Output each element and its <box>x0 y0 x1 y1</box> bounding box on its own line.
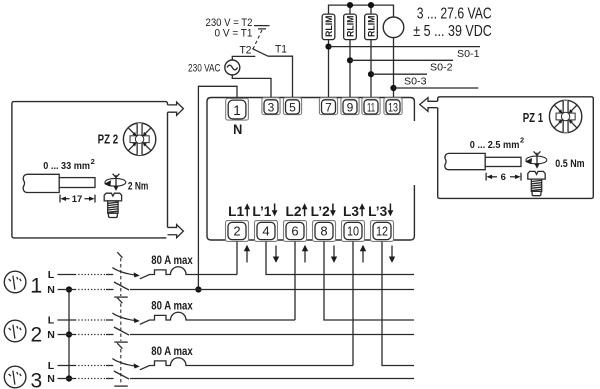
link bar selector <box>254 26 270 29</box>
svg-text:0 ... 2.5 mm: 0 ... 2.5 mm <box>470 140 520 151</box>
switch lever T2/T1 <box>252 49 268 57</box>
junction S0-3 <box>368 71 374 77</box>
breaker 80A row1 <box>140 267 237 279</box>
wire riser terminal 6 <box>294 241 296 320</box>
junction bus <box>347 2 353 8</box>
wire T2 contact <box>232 56 255 60</box>
wire N row2 <box>58 334 76 336</box>
svg-text:2: 2 <box>30 324 42 347</box>
resistor RLIM 2 <box>344 14 357 39</box>
switch lever L row2 <box>112 313 135 321</box>
terminal 4 <box>255 221 278 242</box>
arrow down terminal 8 <box>331 246 337 263</box>
junction N riser row1 <box>195 286 201 292</box>
wire N row1 out <box>130 289 414 291</box>
svg-text:S0-1: S0-1 <box>457 49 480 60</box>
mech link row3 <box>117 343 122 349</box>
torque tool 2Nm <box>104 174 126 191</box>
svg-text:L’3: L’3 <box>368 204 387 219</box>
svg-text:2: 2 <box>91 157 95 166</box>
wire L row3 <box>58 365 76 367</box>
SECTION: PZ1 box <box>420 97 594 199</box>
wire N row3 out <box>130 378 414 380</box>
terminal 8 <box>313 221 336 242</box>
screw PZ1 <box>528 171 545 195</box>
svg-text:1: 1 <box>30 275 42 298</box>
svg-text:L: L <box>48 360 55 372</box>
meter icon circuit 2 <box>4 320 26 342</box>
wire source to terminal 3 <box>232 75 271 100</box>
svg-text:± 5 ... 39 VDC: ± 5 ... 39 VDC <box>413 23 492 40</box>
switch lever L row1 <box>112 268 135 276</box>
svg-text:RLIM: RLIM <box>345 16 355 38</box>
meter body outline <box>207 98 414 241</box>
mechanical link dashed <box>253 30 262 49</box>
svg-text:S0-2: S0-2 <box>430 63 453 74</box>
pointer arrow bottom <box>168 225 184 238</box>
svg-text:7: 7 <box>325 100 332 114</box>
terminal 11 <box>362 98 380 115</box>
resistor RLIM 3 <box>365 14 378 39</box>
cable conductor <box>485 157 521 166</box>
svg-text:80 A max: 80 A max <box>151 298 193 312</box>
AC source circle 230VAC <box>225 60 240 75</box>
wire N terminal 1 riser <box>198 86 237 289</box>
junction S0-2 <box>347 57 353 63</box>
svg-text:N: N <box>233 121 242 137</box>
mech link row1 <box>117 252 122 258</box>
arrow down terminal 4 <box>273 246 279 263</box>
wire terminal 4 to load 1 <box>266 241 414 274</box>
svg-text:9: 9 <box>347 100 354 114</box>
svg-text:11: 11 <box>367 100 375 114</box>
sine wave <box>227 65 238 70</box>
pozidriv icon PZ2 <box>123 123 155 155</box>
svg-text:PZ 2: PZ 2 <box>98 132 119 147</box>
cable conductor <box>59 178 95 188</box>
svg-text:17: 17 <box>72 194 83 205</box>
cable insulation <box>23 174 59 192</box>
wire N row2 out <box>130 334 414 336</box>
label L2 up <box>286 203 308 219</box>
terminal 13 <box>384 98 402 115</box>
terminal 7 <box>319 98 337 115</box>
dimension 17 <box>60 194 95 205</box>
wire terminal 12 to load 3 <box>382 241 414 365</box>
annotation box PZ2 <box>12 102 168 238</box>
svg-text:L3: L3 <box>343 204 359 219</box>
svg-text:0.5 Nm: 0.5 Nm <box>555 158 584 170</box>
wire RLIM3 to terminal 11 <box>370 40 372 100</box>
svg-text:6: 6 <box>291 224 298 239</box>
wire S0 common <box>394 87 479 89</box>
label L'3 down <box>368 204 393 220</box>
torque tool 0.5Nm <box>525 151 547 168</box>
SECTION: bottom rows <box>4 241 414 389</box>
junction S0 common <box>390 85 396 91</box>
switch lever N row1 <box>114 282 129 290</box>
junction socket2 N <box>66 331 72 337</box>
svg-text:2: 2 <box>233 224 240 239</box>
terminal 6 <box>284 221 307 242</box>
wire RLIM1 to terminal 7 <box>328 40 330 100</box>
svg-text:0 V = T1: 0 V = T1 <box>215 28 253 40</box>
svg-text:0 ... 33 mm: 0 ... 33 mm <box>43 161 90 172</box>
wire terminal 8 to load 2 <box>324 241 414 320</box>
wire riser terminal 10 <box>352 241 354 365</box>
svg-text:T1: T1 <box>275 44 287 56</box>
cable insulation <box>445 153 485 169</box>
svg-text:N: N <box>47 373 55 385</box>
SECTION: PZ2 box <box>12 102 184 238</box>
svg-text:80 A max: 80 A max <box>151 253 193 267</box>
svg-text:8: 8 <box>320 224 327 239</box>
svg-text:1: 1 <box>233 103 241 118</box>
wire S0-1 <box>329 46 481 48</box>
terminal 12 <box>371 221 394 242</box>
terminal 9 <box>341 98 359 115</box>
svg-text:230 VAC: 230 VAC <box>188 62 221 74</box>
svg-text:S0-3: S0-3 <box>404 77 427 88</box>
wire L row1 <box>58 274 76 276</box>
svg-text:N: N <box>47 284 55 296</box>
terminal 2 <box>226 221 249 242</box>
label L'2 down <box>311 204 336 220</box>
S0 supply circle <box>383 17 404 38</box>
arrow up terminal 6 <box>302 245 308 263</box>
meter icon circuit 3 <box>4 366 26 388</box>
svg-text:L’1: L’1 <box>252 204 271 219</box>
svg-text:4: 4 <box>262 224 269 239</box>
svg-text:2 Nm: 2 Nm <box>128 181 149 193</box>
svg-text:RLIM: RLIM <box>366 16 376 38</box>
svg-text:L’2: L’2 <box>311 204 330 219</box>
svg-text:2: 2 <box>520 136 524 145</box>
wire riser terminal 2 <box>236 241 238 274</box>
svg-text:L: L <box>48 269 55 281</box>
wire circle to terminal 13 <box>393 38 395 100</box>
junction socket1 N <box>66 286 72 292</box>
terminal 5 <box>283 98 301 115</box>
svg-text:5: 5 <box>289 100 296 114</box>
breaker 80A row2 <box>140 312 295 324</box>
label L3 up <box>343 203 365 219</box>
SECTION: top selector supply <box>188 17 293 292</box>
label L'1 down <box>252 204 277 220</box>
annotation box PZ1 <box>438 97 594 199</box>
svg-text:12: 12 <box>376 224 388 239</box>
svg-text:6: 6 <box>501 172 506 183</box>
svg-text:3: 3 <box>30 370 42 389</box>
svg-text:10: 10 <box>347 224 359 239</box>
mech link row2 <box>117 298 122 304</box>
arrow up terminal 10 <box>360 245 366 263</box>
switch lever N row2 <box>114 327 129 335</box>
switch lever L row3 <box>112 359 135 367</box>
svg-text:3 ... 27.6 VAC: 3 ... 27.6 VAC <box>417 5 492 22</box>
wire RLIM2 to terminal 9 <box>349 40 351 100</box>
wire T1 to terminal 5 <box>268 56 293 99</box>
junction bus <box>368 2 374 8</box>
junction S0-1 <box>325 44 331 50</box>
svg-text:T2: T2 <box>240 45 252 57</box>
dimension 6 <box>486 172 521 183</box>
pointer arrow top <box>168 102 184 115</box>
resistor RLIM 1 <box>322 14 335 39</box>
terminal 1 <box>226 98 249 120</box>
svg-text:RLIM: RLIM <box>324 16 334 38</box>
wire S0-3 <box>371 73 427 75</box>
pozidriv icon PZ1 <box>549 100 581 132</box>
svg-text:L2: L2 <box>286 204 302 219</box>
wire S0-2 <box>350 59 453 61</box>
arrow down terminal 12 <box>389 246 395 263</box>
svg-text:N: N <box>47 329 55 341</box>
wire N row3 <box>58 378 76 380</box>
arrow up terminal 2 <box>244 245 250 263</box>
pointer arrow left <box>420 98 438 112</box>
label L1 up <box>228 203 250 219</box>
wire N row1 <box>58 289 76 291</box>
screw PZ2 <box>104 193 121 217</box>
SECTION: S0 / RLIM block <box>322 2 492 100</box>
terminal 3 <box>262 98 280 115</box>
terminal 10 <box>342 221 365 242</box>
switch lever N row3 <box>114 371 129 379</box>
svg-text:PZ 1: PZ 1 <box>523 110 544 125</box>
breaker 80A row3 <box>140 358 353 370</box>
SECTION: device body <box>207 98 414 263</box>
meter icon circuit 1 <box>4 271 26 293</box>
junction socket3 N <box>66 375 72 381</box>
svg-text:13: 13 <box>388 100 398 114</box>
svg-text:80 A max: 80 A max <box>151 344 193 358</box>
svg-text:L: L <box>48 315 55 327</box>
svg-text:L1: L1 <box>228 204 244 219</box>
N bus left <box>68 290 70 379</box>
bus wire top <box>329 5 394 17</box>
svg-text:3: 3 <box>268 100 275 114</box>
wire L row2 <box>58 319 76 321</box>
